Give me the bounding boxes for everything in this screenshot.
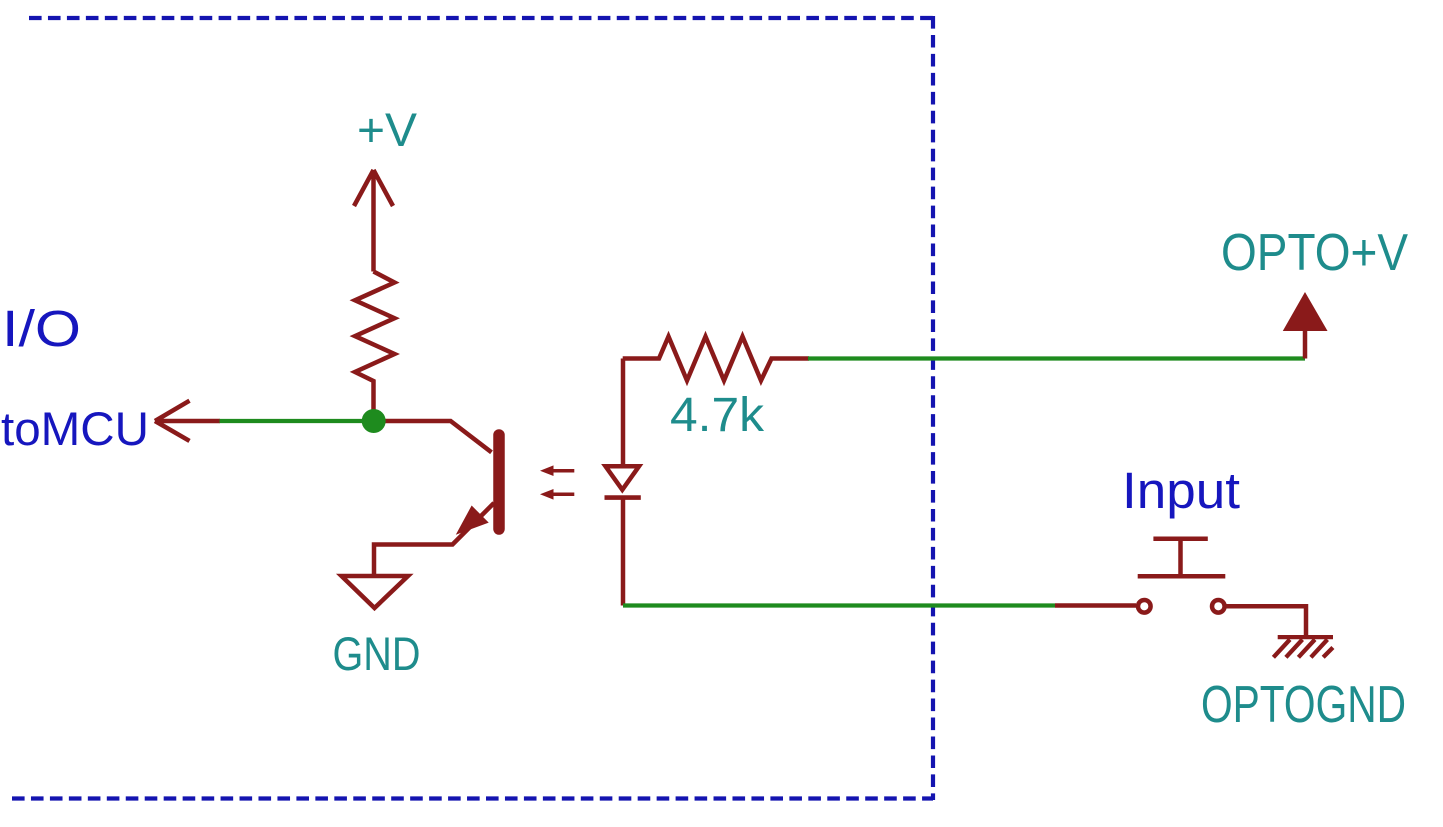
- power symbol +V arrow: [354, 170, 393, 272]
- optocoupler light arrow 2: [551, 493, 574, 497]
- wire R2 to OPTO+V (green): [808, 356, 1305, 360]
- global label arrow: [155, 401, 220, 441]
- LED D1 triangle: [606, 466, 640, 490]
- ground OPTOGND symbol: [1273, 637, 1333, 657]
- dashed sheet border bottom: [12, 796, 933, 800]
- switch SW1 push button cap: [1138, 539, 1226, 577]
- transistor Q1 emitter: [374, 503, 494, 576]
- power symbol OPTO+V arrow: [1285, 294, 1326, 330]
- wire pin lead to switch (red): [1055, 603, 1136, 608]
- svg-text:OPTO+V: OPTO+V: [1221, 224, 1408, 282]
- resistor R1 (vertical): [355, 272, 395, 422]
- svg-text:toMCU: toMCU: [1, 402, 149, 455]
- svg-text:4.7k: 4.7k: [670, 389, 765, 442]
- svg-text:+V: +V: [357, 103, 418, 156]
- power symbol OPTO+V stub: [1303, 328, 1308, 359]
- switch SW1 left contact: [1138, 600, 1151, 613]
- wire switch to OPTOGND: [1226, 606, 1306, 636]
- dashed sheet border right: [931, 16, 935, 800]
- LED D1 cathode bar: [605, 495, 641, 500]
- svg-text:GND: GND: [333, 627, 421, 680]
- wire LED cathode to switch (green): [623, 603, 1055, 607]
- svg-text:Input: Input: [1122, 462, 1240, 519]
- LED D1 anode wire: [621, 359, 626, 467]
- optocoupler light arrow 1: [551, 469, 574, 473]
- transistor Q1 emitter arrowhead: [459, 508, 486, 532]
- wire toMCU to junction (green): [220, 419, 375, 423]
- ground GND symbol: [342, 576, 409, 608]
- junction node: [362, 409, 386, 433]
- transistor Q1 base bar: [493, 435, 505, 529]
- transistor Q1 collector wire: [374, 421, 492, 452]
- switch SW1 right contact: [1212, 600, 1225, 613]
- svg-text:I/O: I/O: [2, 300, 81, 357]
- svg-text:OPTOGND: OPTOGND: [1201, 676, 1406, 734]
- LED D1 cathode wire: [621, 498, 626, 606]
- dashed sheet border top: [29, 16, 933, 20]
- resistor R2 4.7k (horizontal): [623, 337, 809, 381]
